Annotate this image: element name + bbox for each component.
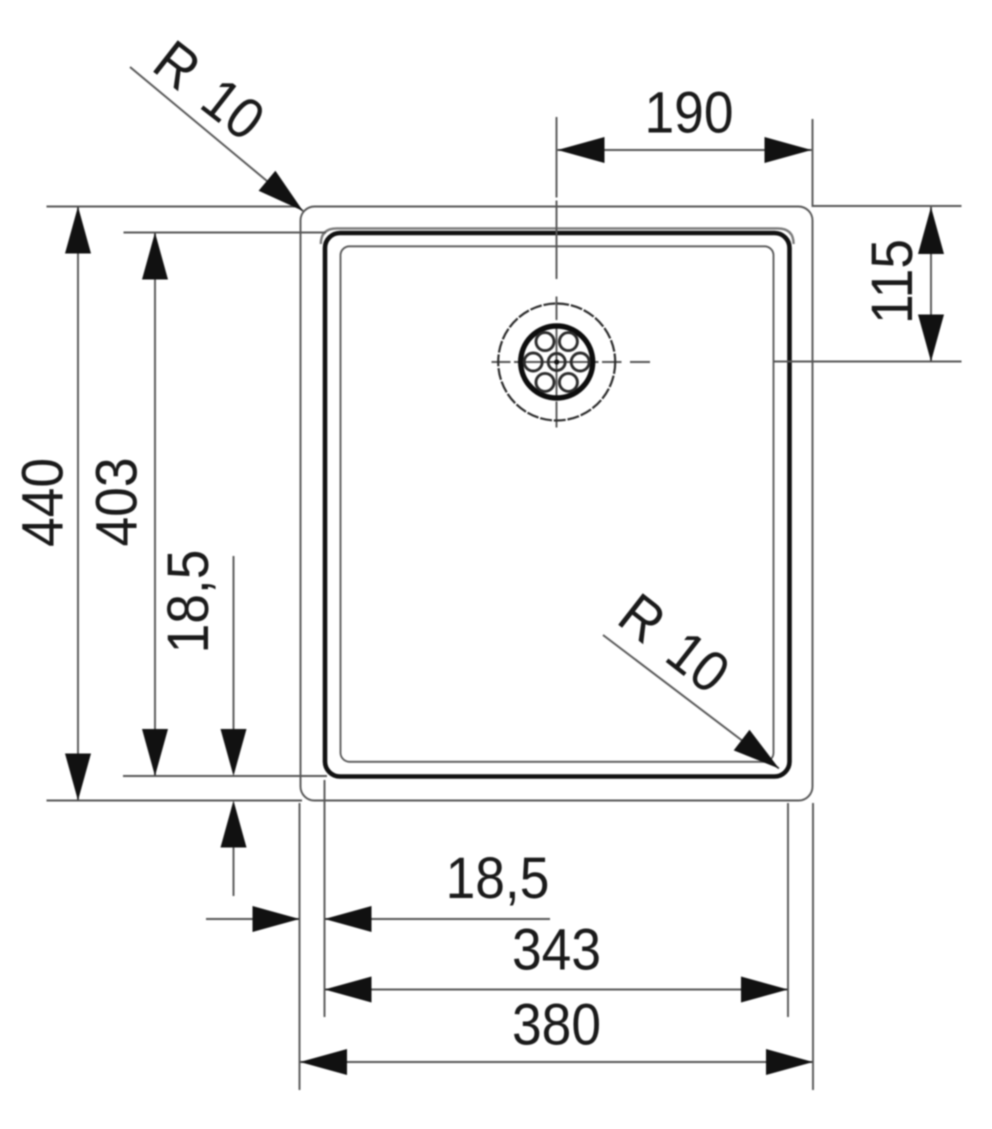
dimension 403 bottom arrow [142, 729, 168, 776]
drain hole lower-right [559, 373, 577, 391]
svg-text:403: 403 [84, 457, 149, 546]
dimension 403 label [84, 457, 149, 546]
dimension 440 bottom arrow [65, 754, 91, 801]
dimension 115 top arrow [918, 207, 944, 254]
dimension 440 line [77, 207, 79, 801]
dimension 115 label [860, 239, 925, 324]
drain hole lower-left [536, 373, 554, 391]
dimension 18,5 left tail lower [233, 848, 235, 897]
dimension 18,5 bottom left arrow (right) [253, 906, 300, 932]
extension line 380 left vertical [299, 803, 301, 1090]
svg-text:190: 190 [644, 80, 733, 145]
dimension 190 right arrow [765, 137, 812, 163]
dimension 343 label [512, 917, 601, 982]
bowl rim top companion line [321, 228, 794, 244]
radius R10 bottom-right label [607, 581, 741, 706]
dimension 343 right arrow [741, 977, 788, 1003]
radius R10 top-left label [142, 28, 276, 153]
extension line inner bottom (403/18,5) [123, 775, 327, 777]
drain horizontal centerline [492, 361, 962, 364]
extension line 343 right vertical [787, 803, 789, 1017]
dimension 403 top arrow [142, 233, 168, 280]
bowl rim thick outline [325, 233, 790, 777]
radius R10 top-left leader [130, 67, 303, 211]
dimension 18,5 bottom label [446, 846, 550, 911]
extension line 380 right vertical [812, 803, 814, 1090]
dimension 343 line [325, 989, 789, 991]
radius R10 bottom-right leader [603, 635, 779, 769]
dimension 440 top arrow [65, 207, 91, 254]
extension line 343 left vertical [324, 780, 326, 1017]
dimension 190 line [558, 149, 812, 151]
dimension 440 label [10, 458, 75, 547]
drain hole upper-right [559, 333, 577, 351]
radius R10 bottom-right arrow [734, 730, 779, 769]
drain center hole [548, 354, 565, 371]
dimension 380 left arrow [300, 1049, 347, 1075]
dimension 18,5 left upper arrow (down) [221, 729, 247, 776]
extension line outer bottom [47, 800, 303, 802]
radius R10 top-left arrow [259, 171, 303, 211]
drain ring thick circle [521, 326, 593, 398]
svg-text:380: 380 [512, 992, 601, 1057]
bowl bottom thin outline [341, 246, 774, 762]
extension line inner top (403) [124, 232, 327, 234]
svg-text:115: 115 [860, 239, 925, 324]
dimension 115 line [930, 207, 932, 362]
dimension 190 left arrow [558, 137, 605, 163]
drain outer circle [498, 304, 615, 421]
drain vertical centerline [556, 117, 558, 428]
dimension 18,5 bottom right arrow (left) [325, 906, 372, 932]
dimension 18,5 left label [156, 550, 221, 654]
svg-text:18,5: 18,5 [446, 846, 550, 911]
drain hole right [571, 353, 589, 371]
svg-text:440: 440 [10, 458, 75, 547]
drain center dot [554, 359, 559, 364]
extension line top-right (outer top edge) [813, 205, 962, 207]
extension line 190 right vertical [812, 119, 814, 207]
dimension 18,5 left lower arrow (up) [221, 801, 247, 848]
drain hole upper-left [536, 333, 554, 351]
dimension 190 label [644, 80, 733, 145]
dimension 380 label [512, 992, 601, 1057]
dimension 18,5 bottom left leader [206, 918, 300, 920]
drain hole left [524, 353, 542, 371]
svg-text:18,5: 18,5 [156, 550, 221, 654]
dimension 18,5 bottom right leader [325, 918, 551, 920]
dimension 115 bottom arrow [918, 315, 944, 362]
outer sink outline [301, 207, 813, 801]
dimension 380 line [300, 1061, 813, 1063]
dimension 18,5 left tail upper [233, 556, 235, 729]
dimension 343 left arrow [325, 977, 372, 1003]
extension line top-left (outer top edge) [47, 206, 300, 208]
dimension 380 right arrow [766, 1049, 813, 1075]
svg-text:343: 343 [512, 917, 601, 982]
dimension 403 line [154, 233, 156, 777]
